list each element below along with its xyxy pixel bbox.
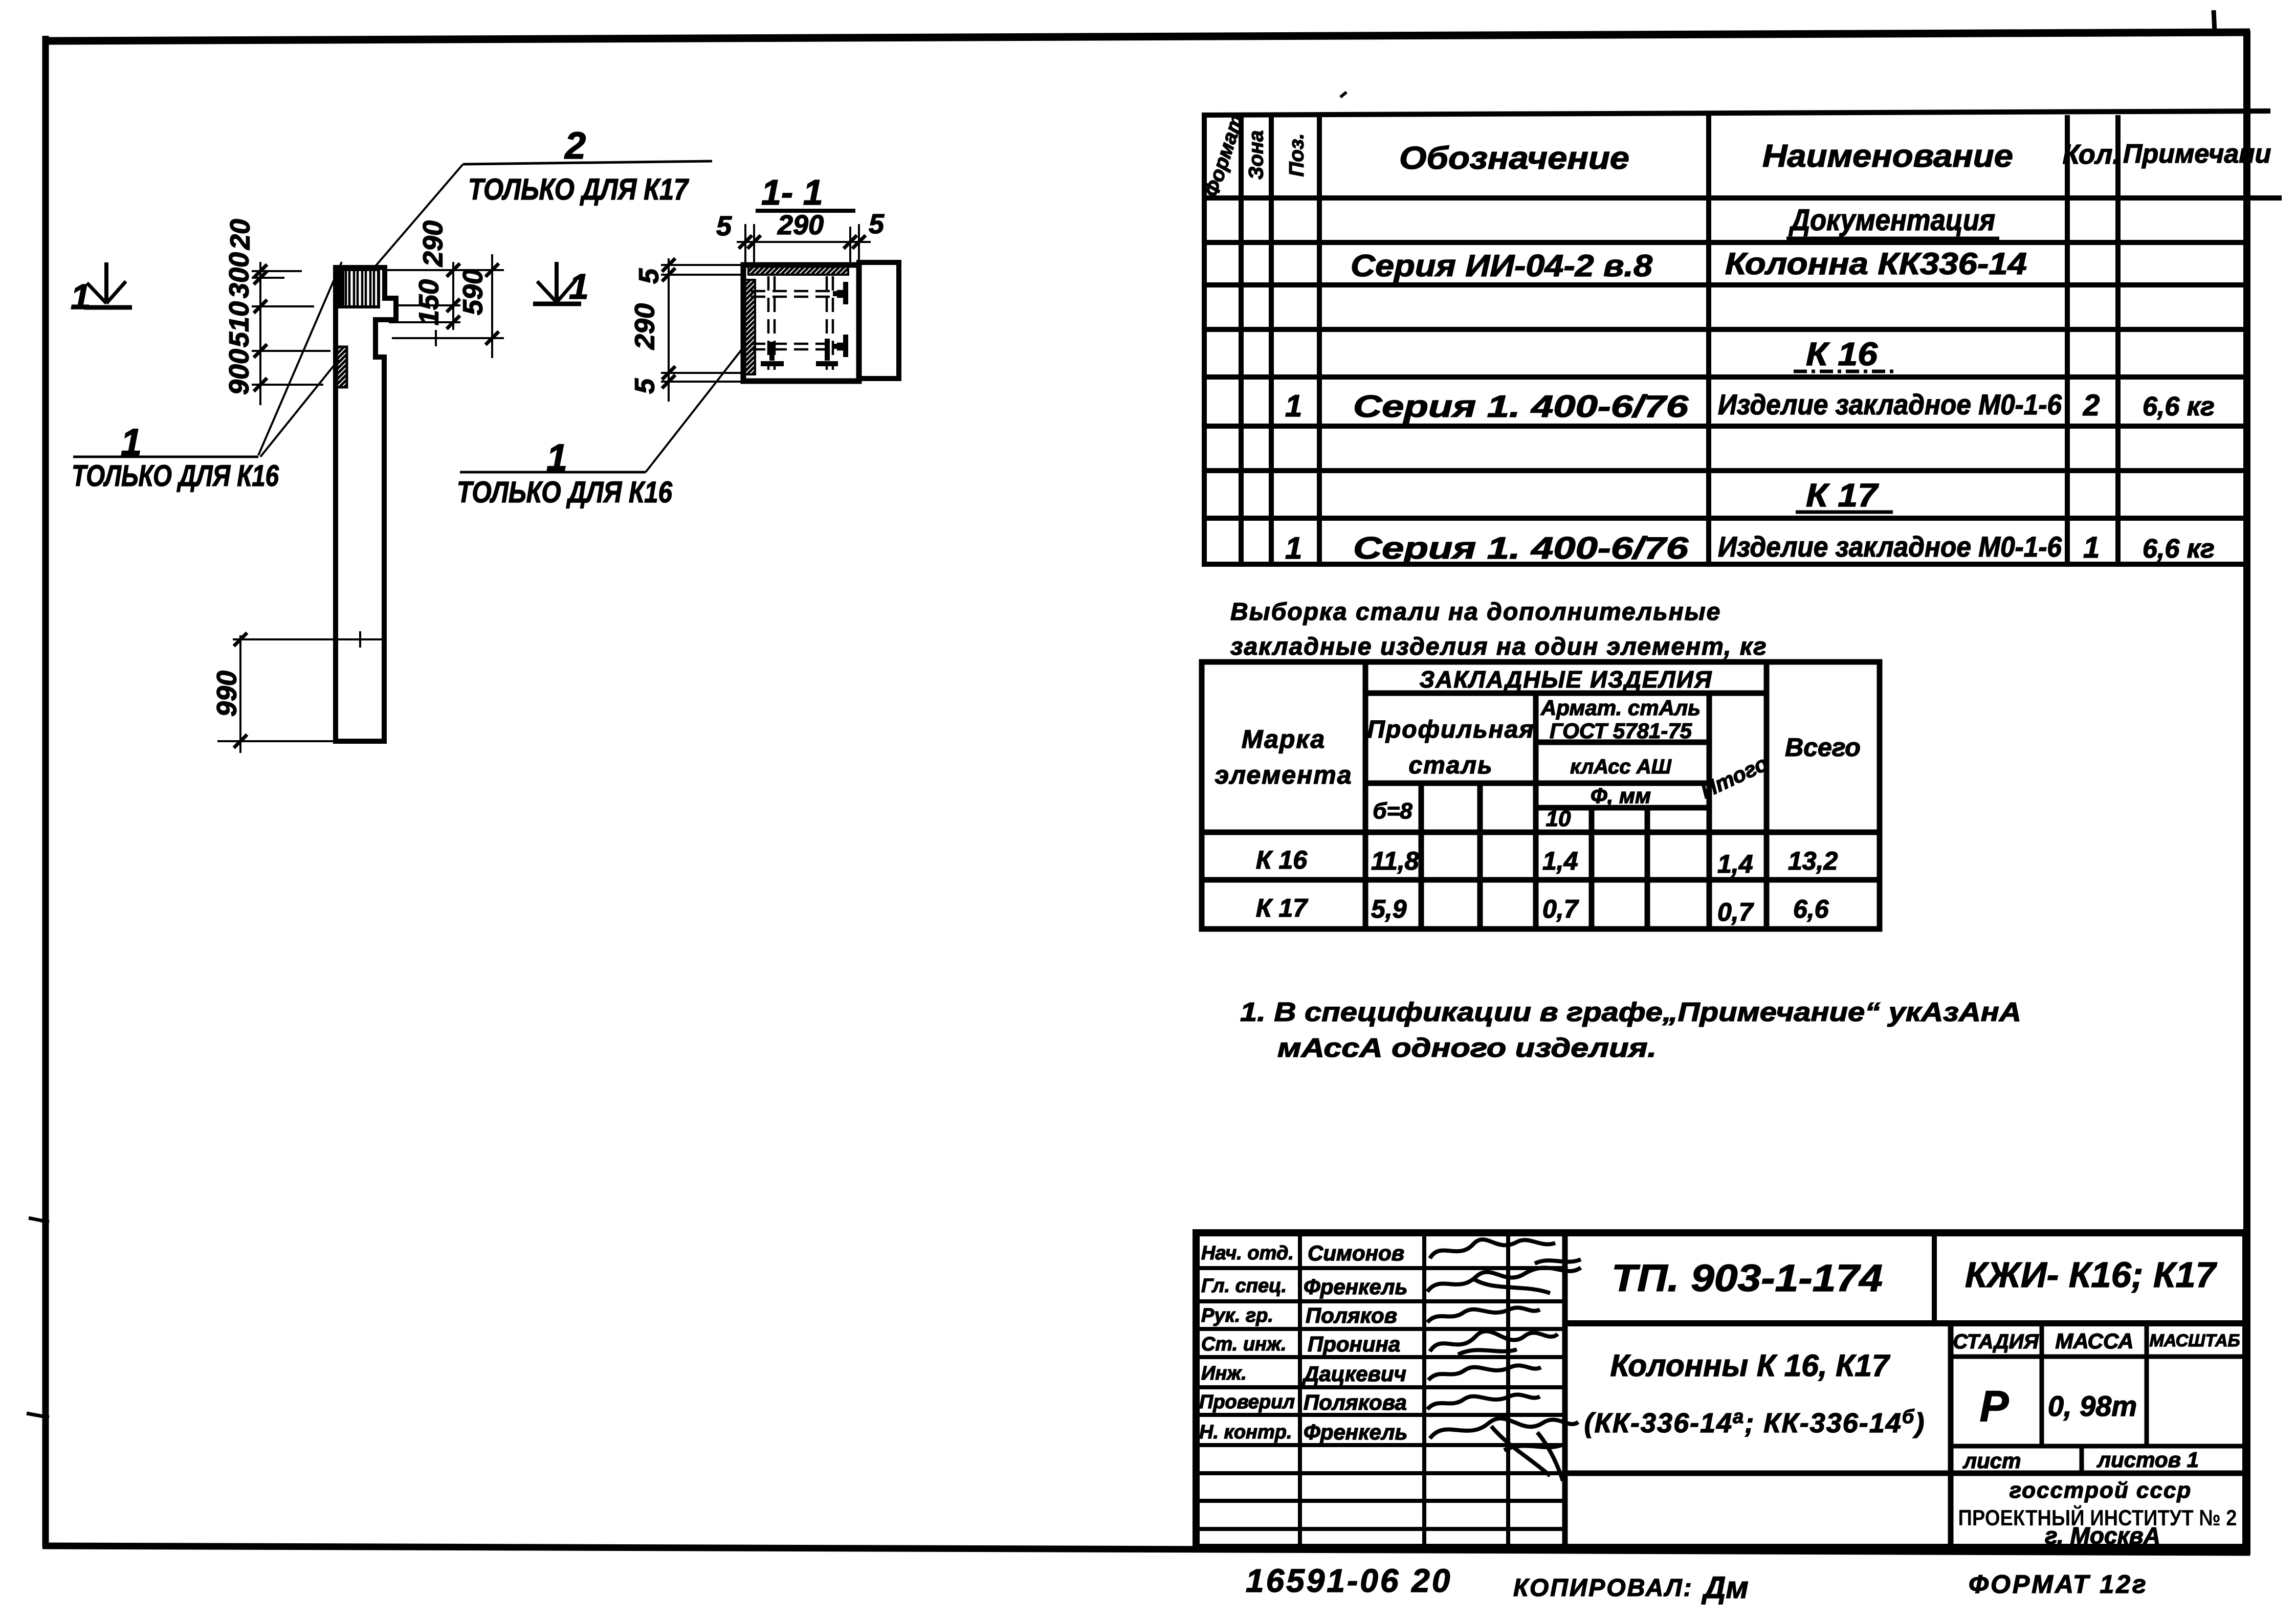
svg-text:б=8: б=8 <box>1373 799 1412 824</box>
svg-text:6,6: 6,6 <box>1793 895 1829 923</box>
svg-text:150: 150 <box>413 279 444 325</box>
svg-text:5: 5 <box>629 378 660 394</box>
svg-text:290: 290 <box>777 210 824 240</box>
hidden anchors: dashed verticals <box>768 276 833 370</box>
svg-text:Френкель: Френкель <box>1304 1275 1407 1299</box>
signature squiggles <box>1427 1239 1581 1481</box>
title block outer border <box>1196 1233 2246 1547</box>
anchor stud right lower <box>833 335 846 357</box>
frame top border <box>42 32 2250 41</box>
svg-text:г. МосквА: г. МосквА <box>2045 1522 2160 1549</box>
svg-text:590: 590 <box>457 269 488 315</box>
svg-text:ТОЛЬКО ДЛЯ К17: ТОЛЬКО ДЛЯ К17 <box>468 173 689 206</box>
svg-text:Колонны К 16, К17: Колонны К 16, К17 <box>1610 1348 1891 1383</box>
svg-text:КЖИ- К16; К17: КЖИ- К16; К17 <box>1965 1255 2217 1295</box>
svg-text:Серия 1. 400-6/76: Серия 1. 400-6/76 <box>1353 389 1689 424</box>
svg-text:1,4: 1,4 <box>1542 847 1578 875</box>
svg-text:1: 1 <box>569 267 589 306</box>
section body square <box>743 265 859 381</box>
svg-text:2: 2 <box>2083 389 2100 422</box>
svg-text:Профильная: Профильная <box>1367 716 1534 743</box>
SECTION 1-1 VIEW <box>457 172 899 509</box>
svg-text:Серия 1. 400-6/76: Серия 1. 400-6/76 <box>1353 531 1689 565</box>
svg-text:Всего: Всего <box>1785 733 1861 762</box>
svg-text:Симонов: Симонов <box>1308 1241 1404 1265</box>
svg-text:КОПИРОВАЛ:: КОПИРОВАЛ: <box>1513 1574 1693 1602</box>
svg-text:госстрой ссср: госстрой ссср <box>2010 1478 2192 1503</box>
frame left border <box>42 36 49 1548</box>
svg-text:300: 300 <box>224 252 254 298</box>
BOTTOM ANNOTATIONS <box>1246 1562 2148 1605</box>
central: TP 903-1-174 row <box>1932 1233 1937 1323</box>
svg-text:элемента: элемента <box>1215 761 1352 789</box>
svg-text:1: 1 <box>2083 531 2100 564</box>
svg-text:1. В спецификации в графе„П: 1. В спецификации в графе„Примечание“ ук… <box>1240 997 2021 1027</box>
stage/mass/scale header cells <box>1948 1323 1954 1547</box>
frame right border <box>2243 31 2250 1555</box>
svg-text:1,4: 1,4 <box>1717 850 1753 878</box>
svg-text:Дацкевич: Дацкевич <box>1302 1362 1406 1386</box>
anchor stud right upper <box>833 282 846 304</box>
svg-text:листов 1: листов 1 <box>2096 1448 2199 1472</box>
svg-text:1- 1: 1- 1 <box>761 172 823 212</box>
svg-text:ЗАКЛАДНЫЕ ИЗДЕЛИЯ: ЗАКЛАДНЫЕ ИЗДЕЛИЯ <box>1420 666 1713 693</box>
svg-text:Зона: Зона <box>1245 130 1268 180</box>
column outline <box>336 268 396 741</box>
top-right dimension lines 290/150/590 <box>385 254 504 358</box>
svg-text:5: 5 <box>716 211 732 241</box>
svg-text:0,7: 0,7 <box>1717 898 1754 926</box>
svg-text:Инж.: Инж. <box>1201 1363 1247 1384</box>
svg-text:ФОРМАТ 12г: ФОРМАТ 12г <box>1969 1570 2148 1599</box>
svg-text:6,6 кг: 6,6 кг <box>2143 534 2215 564</box>
beam pocket rectangle at right <box>859 262 899 379</box>
embedded plate top strip (hatched) for K17 <box>748 266 848 275</box>
svg-text:13,2: 13,2 <box>1788 847 1838 875</box>
svg-text:СТАДИЯ: СТАДИЯ <box>1953 1330 2039 1353</box>
svg-text:Дм: Дм <box>1701 1570 1749 1605</box>
svg-text:900: 900 <box>224 349 254 395</box>
svg-text:11,8: 11,8 <box>1371 847 1419 875</box>
svg-text:Нач. отд.: Нач. отд. <box>1201 1243 1294 1264</box>
svg-text:К 17: К 17 <box>1256 894 1308 922</box>
svg-text:Поз.: Поз. <box>1286 134 1308 177</box>
NOTE TEXT <box>1240 997 2021 1063</box>
svg-text:ТОЛЬКО ДЛЯ К16: ТОЛЬКО ДЛЯ К16 <box>72 459 279 493</box>
dimension 990 at bottom <box>217 631 384 753</box>
frame tick mark left lower <box>27 1413 49 1417</box>
svg-text:Кол.: Кол. <box>2063 139 2121 170</box>
vertical dimension chain line (20/300/510/900) <box>252 262 330 405</box>
svg-text:Изделие закладное М0-1-6: Изделие закладное М0-1-6 <box>1718 530 2062 563</box>
svg-text:К 17: К 17 <box>1806 477 1880 514</box>
svg-text:ТОЛЬКО ДЛЯ К16: ТОЛЬКО ДЛЯ К16 <box>457 476 673 509</box>
svg-text:Примечани: Примечани <box>2123 139 2271 169</box>
svg-text:Колонна КК336-14: Колонна КК336-14 <box>1725 247 2027 281</box>
svg-text:МАССА: МАССА <box>2055 1329 2133 1353</box>
svg-text:510: 510 <box>224 301 254 347</box>
svg-text:1: 1 <box>1285 531 1302 565</box>
svg-text:290: 290 <box>417 220 448 267</box>
SPECIFICATION TABLE (top right) <box>1200 92 2282 565</box>
anchor stud bottom right <box>816 339 838 364</box>
svg-text:Н. контр.: Н. контр. <box>1199 1422 1292 1443</box>
svg-text:К 16: К 16 <box>1806 336 1878 372</box>
signature table grid <box>1196 1233 1565 1547</box>
svg-text:ТП. 903-1-174: ТП. 903-1-174 <box>1611 1257 1883 1299</box>
svg-text:Рук. гр.: Рук. гр. <box>1201 1305 1273 1326</box>
svg-text:Р: Р <box>1980 1382 2009 1431</box>
section cut mark 1 (right) <box>533 262 581 304</box>
svg-text:0, 98т: 0, 98т <box>2048 1390 2137 1422</box>
svg-text:мАссА одного изделия.: мАссА одного изделия. <box>1277 1033 1657 1063</box>
svg-text:Ф, мм: Ф, мм <box>1591 784 1651 808</box>
TITLE BLOCK <box>1196 1233 2246 1549</box>
frame tick mark top right <box>2214 10 2215 32</box>
STEEL SUMMARY TABLE <box>1202 598 1880 929</box>
svg-text:Армат. стАль: Армат. стАль <box>1540 696 1701 720</box>
leader line to top embed <box>258 262 342 455</box>
svg-text:клАсс АШ: клАсс АШ <box>1570 756 1672 778</box>
embedded plate M0-1-6 top (hatched), for K17 <box>337 270 379 307</box>
svg-text:16591-06 20: 16591-06 20 <box>1246 1562 1452 1599</box>
stray mark above table <box>1340 92 1346 97</box>
svg-text:5,9: 5,9 <box>1371 895 1407 923</box>
svg-text:(КК-336-14а; КК-336-14б): (КК-336-14а; КК-336-14б) <box>1584 1406 1926 1438</box>
embedded plate M0-1-6 lower (hatched), for K16 <box>335 347 347 387</box>
svg-text:закладные изделия на один: закладные изделия на один элемент, кг <box>1230 633 1768 660</box>
leader line 2 to top embed <box>372 164 463 270</box>
svg-text:Обозначение: Обозначение <box>1399 141 1629 176</box>
section cut mark 1 (left) <box>84 262 132 307</box>
svg-text:Выборка стали на дополнител: Выборка стали на дополнительные <box>1230 598 1721 626</box>
leader line to lower embed <box>260 360 339 457</box>
svg-text:Полякова: Полякова <box>1304 1390 1407 1414</box>
svg-text:Поляков: Поляков <box>1306 1303 1397 1327</box>
anchor stud bottom left <box>761 342 784 364</box>
table grid <box>1202 111 2282 564</box>
hidden anchors: dashed horizontals <box>751 291 843 349</box>
svg-text:Френкель: Френкель <box>1304 1420 1407 1444</box>
svg-text:Марка: Марка <box>1242 725 1326 753</box>
svg-text:6,6 кг: 6,6 кг <box>2143 392 2215 422</box>
svg-text:290: 290 <box>629 303 660 350</box>
svg-text:1: 1 <box>71 277 91 317</box>
svg-text:Пронина: Пронина <box>1308 1332 1400 1356</box>
list / listov row <box>1951 1444 2246 1449</box>
svg-text:К 16: К 16 <box>1256 846 1308 874</box>
svg-text:Документация: Документация <box>1788 204 1995 237</box>
svg-text:2: 2 <box>564 124 586 167</box>
svg-text:5: 5 <box>633 268 664 284</box>
svg-text:Проверил: Проверил <box>1199 1391 1295 1413</box>
leader line to left strip <box>646 349 742 472</box>
svg-text:Наименование: Наименование <box>1762 139 2013 174</box>
svg-text:МАСШТАБ: МАСШТАБ <box>2149 1331 2240 1350</box>
LEFT DRAWING: column K16/K17 side view <box>71 124 712 753</box>
frame tick mark left upper <box>29 1218 49 1222</box>
svg-text:0,7: 0,7 <box>1542 895 1579 923</box>
embedded plate left strip (hatched) for K16 <box>744 280 755 374</box>
table grid <box>1202 662 1880 929</box>
svg-text:лист: лист <box>1962 1449 2021 1473</box>
frame bottom border <box>42 1546 2250 1553</box>
dimension ticks <box>254 264 267 391</box>
svg-text:Изделие закладное М0-1-6: Изделие закладное М0-1-6 <box>1718 388 2062 420</box>
svg-text:Ст. инж.: Ст. инж. <box>1201 1334 1287 1355</box>
svg-text:10: 10 <box>1546 806 1571 831</box>
svg-text:Гл. спец.: Гл. спец. <box>1201 1275 1287 1297</box>
svg-text:ГОСТ 5781-75: ГОСТ 5781-75 <box>1550 719 1692 743</box>
svg-text:сталь: сталь <box>1408 752 1493 779</box>
svg-text:Серия ИИ-04-2 в.8: Серия ИИ-04-2 в.8 <box>1351 249 1653 283</box>
svg-text:5: 5 <box>869 209 885 239</box>
svg-text:1: 1 <box>1285 389 1302 423</box>
svg-text:20: 20 <box>225 219 255 250</box>
svg-text:990: 990 <box>211 671 242 717</box>
